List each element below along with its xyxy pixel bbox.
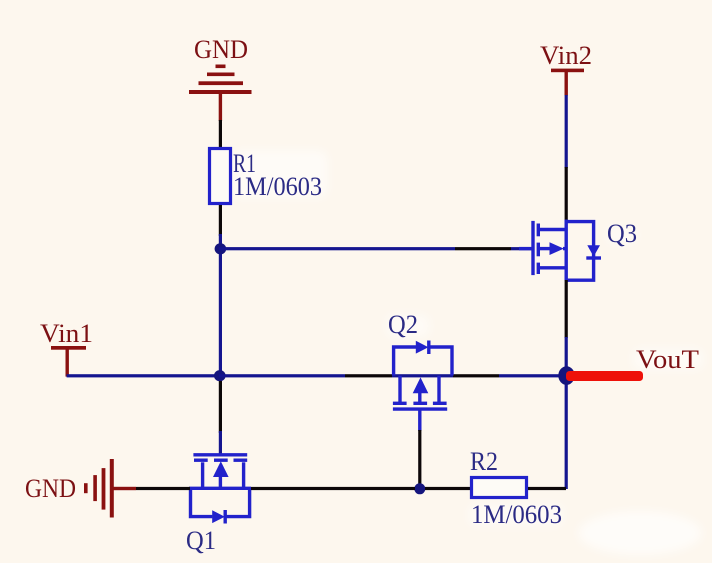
wire (upper row blue to Q3 gate): [511, 247, 532, 250]
wire (Vin2 rail black): [565, 167, 568, 221]
transistor Q1: [189, 455, 251, 524]
wire (Vin2 rail blue): [565, 95, 568, 168]
node B (junction Vin1 row / left rail): [214, 370, 226, 381]
wire (upper row black middle): [455, 247, 511, 250]
wire (left rail blue into Q1 gate): [219, 431, 222, 456]
transistor Q2: [393, 341, 452, 432]
wire (GND to R1 top, black): [219, 120, 222, 148]
wire (right rail black below Q3): [565, 280, 568, 338]
svg-text:Vin2: Vin2: [540, 41, 592, 70]
wire (left rail blue, junction A down to junction B): [219, 234, 222, 378]
node VouT (junction): [558, 366, 574, 385]
wire VouT stub (thick red): [566, 371, 643, 381]
wire (R2 to right rail black): [528, 487, 566, 490]
svg-text:VouT: VouT: [636, 345, 699, 374]
resistor R2: [472, 478, 527, 498]
svg-text:Vin1: Vin1: [40, 319, 93, 348]
wire (Q1 to node C black): [251, 487, 415, 490]
svg-text:1M/0603: 1M/0603: [233, 172, 322, 201]
svg-text:R2: R2: [470, 447, 498, 476]
wire (mid row blue to VouT node): [499, 374, 567, 377]
wire (upper row blue from node A): [219, 247, 455, 250]
wire (R1 bottom, black): [219, 205, 222, 236]
ground (top earth-ground symbol): [189, 65, 252, 122]
wire (node C to R2 black): [425, 487, 470, 490]
wire (Vin1 to node B blue): [67, 374, 220, 377]
wire (mid row black middle): [345, 374, 392, 377]
svg-text:Q2: Q2: [388, 310, 418, 339]
wire (right rail blue below VouT node down to R2 corner): [565, 377, 568, 489]
power port Vin2: [551, 69, 584, 96]
node C (junction Q2 gate / R2 row): [414, 483, 425, 494]
wire (right rail blue above VouT node): [565, 337, 568, 377]
svg-text:Q3: Q3: [607, 219, 637, 248]
power port Vin1: [51, 346, 86, 377]
wire (left rail black node B to Q1 gate): [219, 381, 222, 433]
resistor R1: [210, 149, 231, 204]
svg-text:GND: GND: [194, 35, 248, 64]
svg-text:Q1: Q1: [186, 526, 216, 555]
svg-text:1M/0603: 1M/0603: [471, 500, 562, 529]
wire (Q2 gate lead black): [418, 430, 421, 485]
svg-text:GND: GND: [25, 474, 76, 503]
wire (GND to Q1 loop black): [136, 487, 190, 490]
transistor Q3: [519, 220, 601, 281]
wire (mid row blue from node B): [219, 374, 345, 377]
node A (junction below R1): [215, 243, 227, 254]
ground (left earth-ground symbol): [84, 459, 136, 518]
